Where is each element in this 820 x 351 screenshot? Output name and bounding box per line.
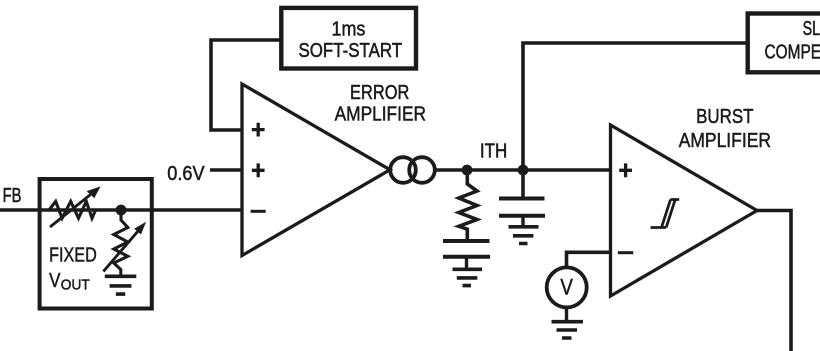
gm output double circle	[390, 157, 416, 183]
ground divider	[105, 276, 137, 294]
svg-text:BURST: BURST	[696, 106, 753, 128]
minus input 3	[251, 210, 266, 213]
minus input burst	[618, 251, 633, 254]
svg-text:SLOPE: SLOPE	[803, 18, 820, 40]
svg-text:V: V	[49, 270, 61, 292]
node FB divider tap	[116, 205, 127, 216]
svg-text:FIXED: FIXED	[49, 245, 97, 267]
plus input burst	[619, 163, 632, 177]
hysteresis symbol	[651, 200, 680, 228]
plus input 1	[252, 123, 265, 137]
box 1ms SOFT-START	[281, 8, 416, 69]
wire CC1 to ground	[465, 258, 468, 269]
resistor RC compensation	[459, 170, 477, 241]
svg-text:FB: FB	[3, 185, 22, 207]
svg-text:OUT: OUT	[61, 277, 90, 294]
capacitor CC1 plates	[443, 241, 490, 257]
op-amp error amplifier triangle	[242, 84, 390, 256]
resistor RV1 variable top divider	[49, 201, 96, 218]
wire ITH node to CC2	[521, 170, 525, 198]
node ITH riser	[518, 165, 529, 176]
wire FB net	[0, 208, 242, 212]
wire CC2 to ground	[521, 217, 524, 227]
svg-text:AMPLIFIER: AMPLIFIER	[335, 104, 426, 126]
wire 0.6V to + input	[210, 168, 242, 172]
resistor RV2 variable bottom divider	[114, 210, 128, 276]
wire riser to slope comp box	[523, 43, 746, 170]
svg-text:COMPENSATION: COMPENSATION	[765, 42, 820, 64]
svg-text:0.6V: 0.6V	[167, 163, 205, 185]
svg-text:SOFT-START: SOFT-START	[298, 40, 402, 62]
voltage source V	[547, 267, 587, 307]
svg-text:V: V	[560, 275, 573, 300]
wire V source to minus input	[567, 252, 611, 268]
wire soft-start loop to error amp + input	[211, 40, 281, 130]
ground RC branch	[453, 269, 483, 285]
node ITH RC	[462, 165, 473, 176]
capacitor CC2 bypass plates	[499, 199, 545, 216]
wire burst output	[757, 211, 791, 351]
wire ITH net	[436, 168, 611, 172]
svg-text:ERROR: ERROR	[350, 82, 409, 104]
svg-text:AMPLIFIER: AMPLIFIER	[679, 130, 771, 152]
svg-text:1ms: 1ms	[332, 19, 366, 41]
svg-text:ITH: ITH	[480, 141, 507, 163]
box FIXED VOUT divider	[40, 179, 152, 309]
wire V source to ground	[565, 306, 568, 322]
comparator burst amplifier triangle	[611, 125, 758, 296]
plus input 2	[252, 163, 265, 177]
ground V source	[552, 322, 584, 338]
ground bypass branch	[509, 227, 539, 244]
box slope compensation	[748, 14, 820, 73]
